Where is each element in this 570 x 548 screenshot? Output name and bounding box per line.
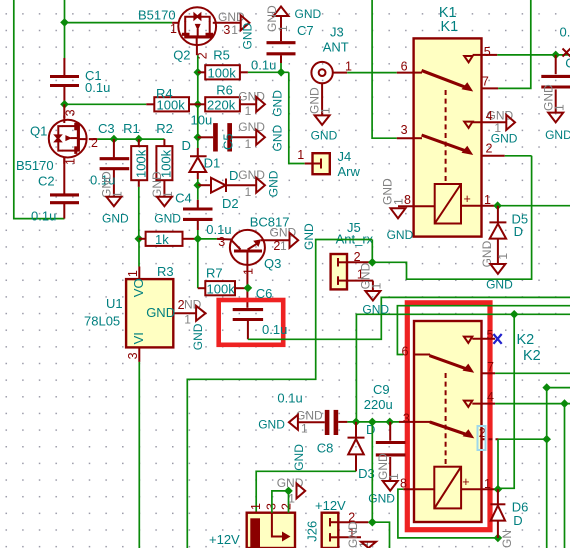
svg-text:R2: R2 [156, 121, 173, 136]
wire R1 bottom to node [138, 187, 140, 239]
wire K1 pin1 right [498, 205, 570, 207]
svg-text:R6: R6 [216, 83, 233, 98]
svg-text:Q1: Q1 [30, 123, 47, 138]
connector J5 [331, 220, 374, 289]
node J25 gnd [284, 487, 293, 496]
svg-text:1: 1 [496, 253, 510, 260]
svg-text:ANT: ANT [323, 40, 349, 55]
svg-text:GND: GND [267, 170, 281, 197]
svg-text:+12V: +12V [315, 498, 346, 513]
svg-text:GND: GND [271, 90, 285, 117]
svg-text:D: D [229, 168, 238, 183]
ground K1 pin4 [486, 109, 518, 146]
svg-text:1: 1 [170, 22, 177, 36]
wire node to U1 pin1 [138, 239, 140, 267]
ground U1 label [178, 297, 206, 350]
resistor R4 [146, 86, 198, 113]
svg-text:GND: GND [277, 476, 304, 490]
ground Q3 [270, 223, 316, 253]
wire rx net to K1 pin2 [372, 156, 531, 279]
node pin4 right edge [560, 399, 569, 408]
marker cyan pin2 [478, 426, 486, 450]
svg-text:1: 1 [392, 198, 406, 205]
node J26 feed [368, 418, 377, 427]
ground C10 [541, 84, 570, 142]
resistor R3 1k [139, 232, 198, 279]
pin 7 [482, 372, 496, 374]
wire K2 pin2 net [498, 388, 570, 440]
svg-text:0.1u: 0.1u [277, 391, 302, 406]
relay K2 [399, 321, 541, 522]
connector J26 [305, 498, 369, 548]
IC U1 78L05 [84, 267, 196, 362]
svg-text:J3: J3 [330, 25, 344, 40]
svg-text:C6: C6 [256, 286, 273, 301]
wire pin4 node down [564, 404, 566, 548]
wire J25 grounds [272, 491, 289, 513]
wire rx net branch [187, 240, 372, 548]
wire pin2 node down [546, 439, 548, 548]
wire left tall vertical [14, 0, 65, 219]
svg-text:U1: U1 [106, 296, 123, 311]
svg-text:1: 1 [249, 503, 263, 510]
svg-text:3: 3 [403, 412, 410, 426]
switch arm 2 [414, 137, 422, 139]
node K2 pin1 [494, 485, 503, 494]
svg-text:3: 3 [401, 123, 408, 137]
diode D2 [198, 168, 256, 211]
resistor R1 [123, 121, 148, 187]
svg-text:R3: R3 [157, 264, 174, 279]
switch arm 1 [414, 72, 422, 74]
node R4 R6 row [194, 100, 203, 109]
svg-text:GND: GND [545, 128, 570, 142]
svg-text:GND: GND [302, 223, 316, 250]
ground K1 pin8 [381, 178, 414, 242]
wire Q1 pin2 row [89, 138, 98, 140]
wire K1 pin7 up [498, 0, 531, 88]
svg-text:+: + [464, 192, 471, 206]
wire Q2 source trunk [196, 45, 199, 148]
ground C5 [238, 120, 284, 152]
capacitor C7 [251, 17, 314, 73]
wire gate feed to Q2 [65, 22, 173, 24]
wire Q2 drain to gnd [216, 22, 241, 24]
svg-text:3: 3 [223, 23, 230, 37]
node K1 pin1 junction [493, 201, 502, 210]
relay K1 [398, 5, 506, 237]
svg-text:100k: 100k [207, 282, 236, 297]
svg-text:Q2: Q2 [173, 47, 190, 62]
ground D6 partial [500, 530, 514, 548]
marker blue X pin5 [494, 334, 502, 344]
svg-text:1: 1 [484, 477, 491, 491]
wire long to J26 [371, 422, 373, 522]
svg-text:3: 3 [126, 352, 140, 359]
svg-text:7: 7 [487, 360, 494, 374]
connector J4 [297, 148, 360, 179]
wire line3 down branch [498, 314, 514, 488]
svg-text:0.1u: 0.1u [251, 57, 276, 72]
svg-text:100k: 100k [157, 98, 186, 113]
svg-text:1: 1 [245, 185, 252, 199]
svg-text:4: 4 [487, 390, 494, 404]
capacitor C2 [31, 157, 79, 224]
svg-text:GND: GND [238, 120, 265, 134]
node R3 left junction [135, 235, 144, 244]
svg-text:6: 6 [402, 344, 409, 358]
svg-text:K2: K2 [523, 348, 541, 364]
resistor R6 [198, 83, 256, 113]
svg-text:1: 1 [63, 158, 77, 165]
svg-text:3: 3 [218, 235, 225, 249]
pin 8 [403, 488, 434, 490]
pin 5 contact [464, 56, 472, 62]
wire line2 to K2 pin6 [397, 306, 570, 355]
svg-text:1: 1 [345, 60, 352, 74]
node C1 top junction [60, 18, 69, 27]
svg-text:1: 1 [301, 422, 308, 436]
svg-text:1: 1 [319, 107, 333, 114]
highlight box C6 [219, 300, 284, 345]
wire R3 to R7 [197, 239, 199, 288]
svg-text:7: 7 [482, 75, 489, 89]
node J26 pin2 [368, 518, 377, 527]
dashed link [445, 373, 447, 467]
resistor R7 [198, 266, 248, 297]
svg-text:GND: GND [292, 444, 306, 471]
svg-text:VO: VO [131, 278, 146, 297]
capacitor C4 [175, 185, 232, 239]
svg-text:C5: C5 [221, 133, 236, 150]
ground C7 top [265, 5, 322, 32]
svg-text:GND: GND [238, 168, 265, 182]
wire K2 pin8 net [398, 489, 498, 538]
transistor Q2 [138, 7, 216, 62]
svg-text:R7: R7 [206, 266, 223, 281]
node J5 pin2 junction [368, 258, 377, 267]
node D6 bottom [494, 534, 503, 543]
wire vertical to K1 pin3 [372, 0, 397, 138]
ground C3 [100, 171, 130, 225]
svg-text:1: 1 [276, 25, 290, 32]
svg-text:GND: GND [296, 409, 323, 423]
ground R6 [238, 90, 284, 119]
wire J26 pin2 down [372, 522, 389, 548]
wire K1 pin2 to right [505, 155, 532, 157]
svg-text:1: 1 [387, 473, 401, 480]
svg-text:+12V: +12V [209, 532, 240, 547]
svg-text:1: 1 [245, 104, 252, 118]
capacitor C9 [364, 382, 406, 481]
capacitor C5 [191, 113, 257, 152]
ground D2 [238, 168, 280, 199]
ground R2 [150, 171, 181, 225]
svg-text:K1: K1 [441, 19, 459, 35]
ground J3 [308, 83, 338, 142]
svg-text:100k: 100k [134, 149, 149, 178]
node C5 row [194, 133, 203, 142]
pin 2 [482, 155, 505, 157]
svg-text:R1: R1 [123, 121, 140, 136]
diode D3 [348, 422, 376, 481]
capacitor C6 [233, 286, 288, 339]
svg-text:GND: GND [295, 7, 322, 21]
svg-text:GND: GND [311, 129, 338, 143]
svg-text:1: 1 [552, 104, 566, 111]
svg-text:GND: GND [486, 277, 513, 291]
svg-text:78L05: 78L05 [84, 313, 120, 328]
svg-text:5: 5 [484, 45, 491, 59]
svg-text:D: D [514, 224, 523, 239]
svg-text:0.1u: 0.1u [85, 80, 110, 95]
svg-text:C: C [565, 55, 570, 70]
connector J25 [209, 503, 295, 548]
svg-text:D: D [366, 422, 375, 437]
wire line3 [356, 314, 570, 422]
svg-text:GN: GN [500, 530, 514, 548]
svg-text:GND: GND [387, 228, 414, 242]
node R3 right junction [194, 235, 203, 244]
switch arm 1 [414, 354, 430, 356]
wire C8 to K2 pin3 [347, 421, 399, 423]
diode D5 [489, 206, 528, 264]
pin 5 contact [464, 337, 472, 343]
svg-text:0.: 0. [560, 25, 570, 40]
ground J25 [277, 444, 306, 506]
svg-text:1: 1 [288, 492, 295, 506]
node C9 top [386, 418, 395, 427]
capacitor C8 [277, 391, 347, 456]
svg-text:R5: R5 [213, 47, 230, 62]
svg-text:3: 3 [63, 109, 77, 116]
svg-text:0.1u: 0.1u [31, 209, 56, 224]
svg-text:C9: C9 [373, 382, 390, 397]
pin 1 [461, 488, 498, 490]
highlight box K2 [407, 303, 490, 530]
coil [435, 184, 461, 224]
svg-text:GND: GND [271, 125, 285, 152]
svg-text:1: 1 [280, 239, 287, 253]
node D2 junction [194, 181, 203, 190]
ground J26 pin1 [346, 521, 376, 548]
svg-text:J26: J26 [305, 521, 320, 542]
coil [434, 467, 461, 509]
svg-text:B5170: B5170 [138, 8, 176, 23]
svg-text:D2: D2 [222, 196, 239, 211]
svg-text:GND: GND [270, 226, 297, 240]
svg-text:1: 1 [126, 270, 140, 277]
wire D3 bottom left [256, 471, 356, 513]
svg-text:+: + [462, 475, 469, 489]
node C3 junction [110, 135, 119, 144]
svg-text:C3: C3 [98, 121, 115, 136]
svg-text:C4: C4 [175, 190, 192, 205]
svg-text:GND: GND [258, 418, 285, 432]
svg-text:D: D [513, 513, 522, 528]
wire C1 junction to R4 [65, 103, 147, 105]
svg-text:220u: 220u [364, 397, 393, 412]
resistor R2 [156, 121, 173, 196]
svg-text:GND: GND [102, 211, 129, 225]
svg-text:0.1u: 0.1u [262, 322, 287, 337]
transistor Q3 [198, 214, 290, 307]
svg-text:100k: 100k [208, 66, 237, 81]
svg-text:220k: 220k [207, 98, 236, 113]
node R1 junction [135, 135, 144, 144]
wire R5 right to C7 node [248, 71, 289, 73]
node pin2 right [542, 435, 551, 444]
svg-text:K2: K2 [517, 332, 535, 348]
node R7 right junction [244, 284, 253, 293]
svg-text:GND: GND [491, 131, 518, 145]
node R5 left [194, 68, 203, 77]
svg-text:1: 1 [231, 23, 238, 37]
diode D6 [490, 489, 528, 538]
svg-text:VI: VI [131, 332, 146, 344]
svg-text:GND: GND [191, 323, 205, 350]
node line3 junction [510, 310, 519, 319]
svg-text:2: 2 [354, 250, 361, 264]
wire J3 to K1 pin6 [347, 72, 397, 74]
svg-text:1: 1 [297, 148, 304, 162]
svg-text:Arw: Arw [338, 164, 361, 179]
svg-text:C2: C2 [38, 173, 55, 188]
switch arm 2 [414, 421, 430, 423]
svg-text:1: 1 [241, 268, 255, 275]
svg-text:1: 1 [484, 193, 491, 207]
transistor Q1 [16, 104, 98, 173]
ground C9 [368, 453, 401, 505]
svg-text:J4: J4 [338, 149, 352, 164]
ground C8 left [258, 409, 323, 436]
svg-text:GND: GND [146, 305, 175, 320]
svg-text:6: 6 [401, 59, 408, 73]
ground Q2 drain [218, 10, 254, 49]
capacitor C1 [50, 58, 110, 104]
ground D5 [480, 240, 513, 291]
svg-text:GND: GND [240, 23, 254, 50]
node D3 top [352, 418, 361, 427]
node y387 [542, 383, 551, 392]
wire C6 bottom run [248, 297, 570, 339]
node C7 junction [277, 68, 286, 77]
wire top feed vertical [64, 0, 66, 58]
svg-text:5: 5 [487, 328, 494, 342]
resistor R5 [198, 47, 248, 80]
diode D1 [182, 138, 221, 185]
svg-text:D1: D1 [204, 155, 221, 170]
ground J5 [359, 262, 390, 316]
capacitor C10 top right [541, 25, 570, 113]
pin 8 [398, 205, 435, 207]
pin 3 [399, 421, 414, 423]
svg-text:C7: C7 [297, 23, 314, 38]
connector J3 [311, 25, 352, 84]
svg-text:GND: GND [154, 211, 181, 225]
svg-text:1: 1 [245, 137, 252, 151]
svg-text:10u: 10u [191, 113, 213, 128]
pin 1 [461, 205, 498, 207]
svg-text:D: D [182, 138, 191, 153]
dashed link [445, 90, 447, 184]
wire to J4 [289, 72, 305, 163]
pin 2 dashed stub [482, 438, 499, 440]
node top right [551, 51, 560, 60]
pin 7 [482, 87, 499, 89]
svg-text:1k: 1k [155, 232, 169, 247]
svg-text:C8: C8 [317, 441, 334, 456]
wire K2 pin4 right [495, 403, 570, 405]
svg-text:Q3: Q3 [264, 256, 281, 271]
capacitor C3 [90, 121, 129, 196]
wire K1 pin5 to net [497, 54, 570, 56]
svg-text:4: 4 [486, 109, 493, 123]
pin 4 contact [464, 122, 472, 128]
wire K2 pin7 right [495, 372, 570, 374]
pin 4 contact [464, 401, 472, 407]
node C1 bottom junction [60, 100, 69, 109]
svg-text:1: 1 [370, 282, 384, 289]
wire U1 pin3 down [138, 362, 140, 548]
svg-text:B5170: B5170 [16, 158, 54, 173]
